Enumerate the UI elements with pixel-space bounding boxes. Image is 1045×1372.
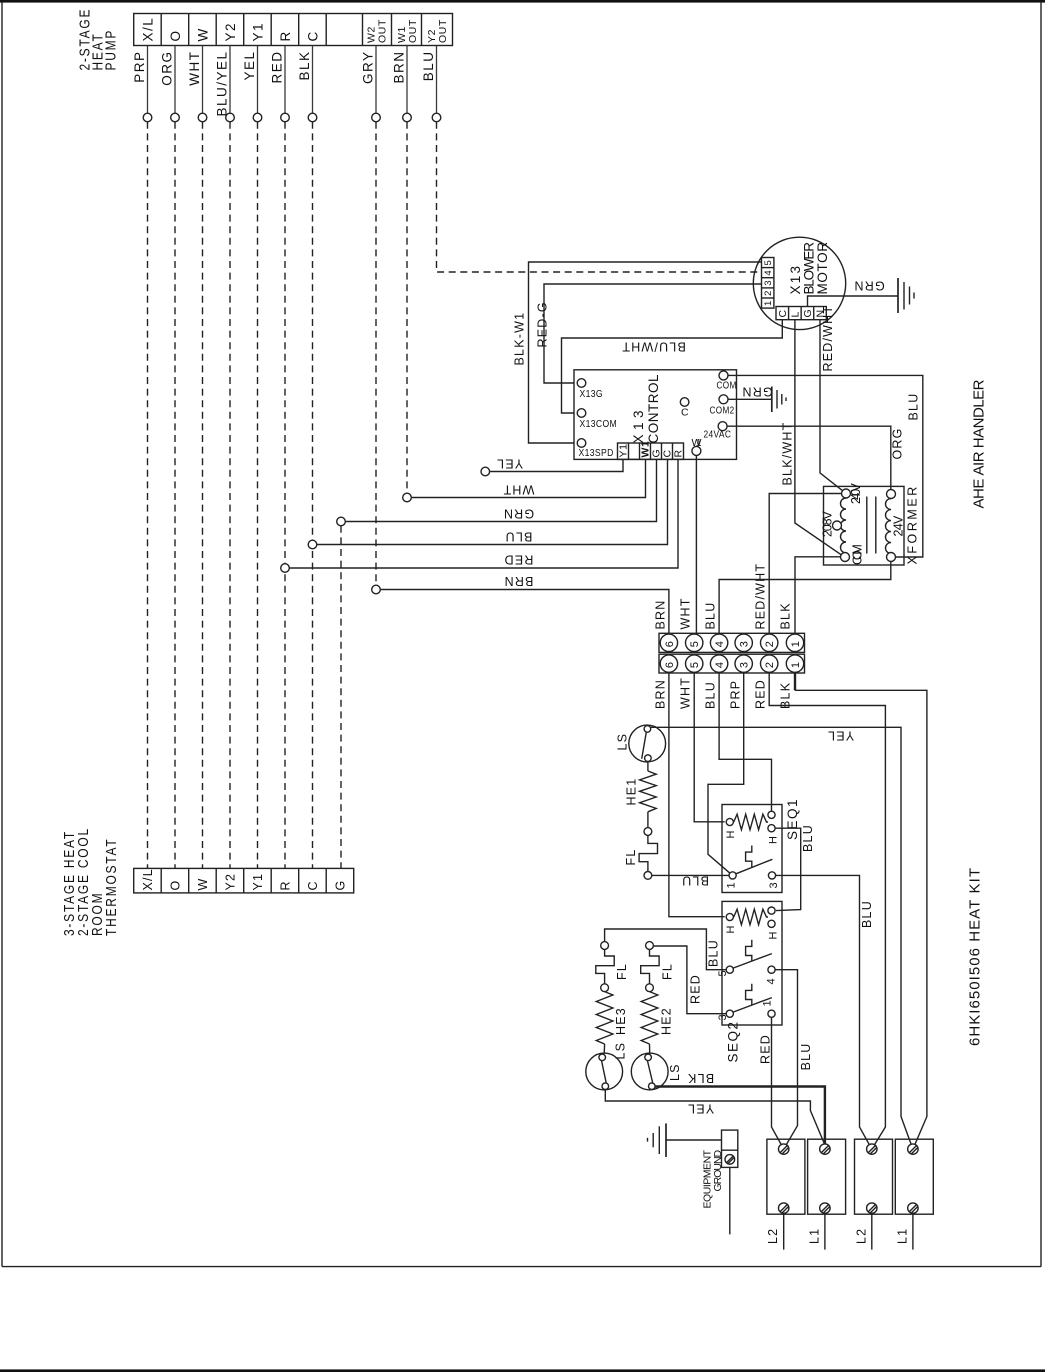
- svg-text:GRN: GRN: [741, 385, 772, 399]
- svg-text:H: H: [725, 830, 737, 839]
- svg-text:5: 5: [689, 661, 701, 668]
- svg-text:YEL: YEL: [496, 457, 523, 471]
- svg-text:BLU/YEL: BLU/YEL: [215, 51, 230, 117]
- svg-text:YEL: YEL: [827, 729, 854, 743]
- SEQ2 heater coil H-H: [734, 909, 768, 925]
- svg-text:BLK: BLK: [297, 51, 312, 81]
- control pin header Y1 / W1 G C R: [618, 441, 685, 460]
- svg-text:24VAC: 24VAC: [704, 429, 732, 441]
- wire BLK-W1 X13SPD to motor pin 5: [529, 262, 762, 443]
- svg-text:FL: FL: [661, 963, 675, 980]
- svg-text:3: 3: [763, 280, 774, 285]
- sequencer SEQ2: [722, 901, 782, 1062]
- svg-text:L: L: [790, 311, 802, 317]
- transformer XFORMER: [821, 482, 920, 565]
- node WHT junction on W1-OUT column: [403, 493, 412, 502]
- svg-text:RED/WHT: RED/WHT: [753, 563, 767, 630]
- wire BLU SEQ2-4 to heat kit L2 block1: [775, 970, 797, 1149]
- svg-text:6HKI650I506 HEAT KIT: 6HKI650I506 HEAT KIT: [967, 868, 984, 1046]
- svg-text:H: H: [768, 931, 780, 940]
- svg-text:THERMOSTAT: THERMOSTAT: [103, 838, 120, 936]
- pin COM: [717, 371, 737, 391]
- ground at motor: [898, 278, 914, 313]
- svg-text:WHT: WHT: [678, 677, 692, 709]
- svg-text:W: W: [196, 27, 211, 41]
- node BLU junction on C column: [308, 540, 317, 549]
- pin X13COM: [577, 409, 617, 431]
- svg-text:BLU: BLU: [703, 602, 717, 630]
- svg-text:G: G: [802, 309, 814, 318]
- svg-text:1: 1: [790, 640, 802, 647]
- pin X13G: [577, 379, 603, 401]
- wire WHT to control W1: [411, 459, 645, 497]
- svg-text:Y1: Y1: [618, 443, 630, 457]
- wire WHT pin5 to SEQ1 H: [694, 673, 725, 822]
- X13 control board U1: [574, 370, 737, 460]
- dashed wire GRY from W2 OUT: [375, 122, 377, 585]
- svg-text:ORG: ORG: [891, 427, 905, 459]
- svg-text:WHT: WHT: [678, 597, 692, 629]
- svg-text:1: 1: [762, 999, 774, 1006]
- svg-text:X13SPD: X13SPD: [579, 447, 614, 459]
- svg-text:BRN: BRN: [653, 679, 667, 709]
- dashed wire BRN from W1 OUT: [406, 122, 408, 493]
- wire BLU pin4 to 24V com: [719, 562, 891, 634]
- heating element HE1: [625, 761, 657, 827]
- svg-text:FL: FL: [615, 963, 629, 980]
- svg-text:WHT: WHT: [502, 483, 534, 497]
- SEQ2 switch M1 pins 5-4: [717, 940, 778, 985]
- svg-text:FL: FL: [624, 849, 638, 866]
- svg-text:Y1: Y1: [251, 22, 266, 42]
- svg-text:BLU/WHT: BLU/WHT: [621, 340, 686, 354]
- svg-text:WHT: WHT: [187, 51, 202, 86]
- svg-text:BLU: BLU: [681, 874, 709, 888]
- svg-text:H: H: [725, 925, 737, 934]
- wire BLK pin1 to heat kit L1: [794, 673, 796, 690]
- svg-text:C: C: [681, 407, 689, 419]
- svg-text:BLU: BLU: [907, 393, 921, 421]
- plug strip lower 6-1: [659, 654, 805, 673]
- svg-text:MOTOR: MOTOR: [815, 241, 830, 295]
- pin 24V com: [887, 553, 896, 562]
- wire GRN motor G to ground: [808, 296, 898, 307]
- svg-text:LS: LS: [616, 733, 630, 751]
- svg-text:1: 1: [726, 881, 738, 888]
- SEQ1 heater coil H-H: [734, 814, 768, 830]
- svg-text:PUMP: PUMP: [102, 29, 119, 71]
- svg-text:X13: X13: [631, 410, 646, 444]
- wire BLU SEQ1 H to SEQ2 H right: [775, 828, 801, 910]
- node GRN junction on G column: [337, 517, 346, 526]
- wire to ground symbol: [666, 1139, 722, 1141]
- svg-text:X/L: X/L: [141, 17, 156, 42]
- heating element HE3: [596, 992, 628, 1054]
- wire ORG 24VAC to transformer 24V: [727, 426, 891, 489]
- svg-text:RED: RED: [503, 553, 533, 567]
- svg-text:OUT: OUT: [437, 19, 449, 43]
- svg-text:R: R: [278, 30, 293, 41]
- svg-text:C: C: [777, 309, 789, 317]
- svg-text:COM: COM: [851, 543, 865, 565]
- wire BLU to control C: [317, 459, 668, 544]
- svg-text:3: 3: [768, 881, 780, 888]
- svg-text:PRP: PRP: [132, 51, 147, 83]
- svg-text:SEQ1: SEQ1: [785, 798, 800, 840]
- ground at COM2: [772, 387, 786, 413]
- pin X13SPD: [577, 439, 614, 460]
- svg-text:1: 1: [790, 661, 802, 668]
- svg-text:HE3: HE3: [614, 1007, 628, 1035]
- svg-text:BLK: BLK: [778, 602, 792, 629]
- svg-text:BLU: BLU: [799, 1043, 813, 1071]
- SEQ2 pins H right: [768, 907, 780, 940]
- svg-text:3: 3: [739, 640, 751, 647]
- wire RED/WHT motor N to transformer 240V: [820, 320, 846, 494]
- terminal block L2 #1: [766, 1139, 805, 1249]
- wire YEL LS-HE3 to heat kit L1 block1: [605, 1090, 825, 1145]
- svg-text:BLU: BLU: [860, 900, 874, 928]
- svg-text:RED: RED: [270, 51, 285, 84]
- pin COM 240: [841, 553, 850, 562]
- svg-text:YEL: YEL: [687, 1102, 714, 1116]
- terminal block L1 #2: [895, 1139, 933, 1249]
- fuse link FL (HE1): [624, 828, 658, 880]
- svg-text:BLK-W1: BLK-W1: [513, 312, 527, 366]
- wire BRN pin6 to SEQ2 H: [669, 673, 725, 917]
- labels above plug: BRN WHT BLU RED/WHT BLK: [653, 563, 792, 630]
- wire BLU SEQ1-3 to heat kit L2: [776, 875, 872, 1149]
- node BRN junction on W2-OUT column: [372, 585, 381, 594]
- svg-text:3: 3: [739, 661, 751, 668]
- svg-text:5: 5: [763, 260, 774, 265]
- svg-text:L1: L1: [895, 1228, 909, 1244]
- wire RED-G X13G to motor pin 3: [544, 284, 762, 383]
- svg-text:O: O: [169, 880, 183, 891]
- dashed wire G column to thermostat G: [340, 526, 342, 869]
- svg-text:5: 5: [717, 969, 729, 976]
- terminal block L2 #2: [854, 1139, 892, 1249]
- svg-text:G: G: [334, 880, 348, 891]
- pin 24V hot: [887, 490, 896, 499]
- svg-text:BLU: BLU: [801, 824, 815, 852]
- wire GRN COM2 to ground: [728, 398, 772, 400]
- svg-text:BLU: BLU: [703, 681, 717, 709]
- svg-text:RED/WHT: RED/WHT: [821, 305, 835, 372]
- svg-text:X13COM: X13COM: [580, 418, 618, 430]
- wire BLU pin4 to SEQ1 H right: [719, 673, 771, 811]
- svg-text:W: W: [196, 878, 210, 891]
- svg-text:H: H: [768, 835, 780, 844]
- motor X13 BLOWER MOTOR: [753, 237, 845, 329]
- svg-text:4: 4: [714, 640, 726, 647]
- svg-text:BRN: BRN: [653, 600, 667, 630]
- wire BLU COM to transformer 24V com: [728, 375, 923, 557]
- svg-text:Y2: Y2: [224, 873, 238, 891]
- wire GRN to control G: [345, 459, 656, 521]
- svg-text:BRN: BRN: [392, 51, 407, 84]
- plug strip upper 6-1: [659, 633, 805, 652]
- svg-text:BRN: BRN: [503, 574, 533, 588]
- svg-text:YEL: YEL: [242, 51, 257, 81]
- svg-text:4: 4: [763, 270, 774, 275]
- SEQ2 pin H left: [725, 913, 737, 933]
- node YEL endpoint: [481, 467, 490, 476]
- svg-text:R: R: [279, 880, 293, 890]
- svg-text:4: 4: [766, 977, 778, 984]
- svg-text:2: 2: [764, 661, 776, 668]
- svg-text:ORG: ORG: [160, 51, 175, 86]
- svg-text:XFORMER: XFORMER: [906, 486, 920, 565]
- motor pin strip 1-5: [762, 258, 774, 309]
- svg-text:AHE AIR HANDLER: AHE AIR HANDLER: [971, 379, 988, 508]
- pin 24VAC: [704, 422, 732, 441]
- pin W1: [692, 437, 703, 455]
- node RED junction on R column: [281, 564, 290, 573]
- svg-text:COM: COM: [717, 378, 737, 390]
- svg-text:O: O: [168, 29, 183, 41]
- svg-text:HE1: HE1: [625, 778, 639, 806]
- svg-text:OUT: OUT: [407, 19, 419, 43]
- wire RED/WHT pin2 to 240V: [769, 494, 841, 634]
- limit switch LS (HE2): [631, 1053, 682, 1090]
- svg-text:5: 5: [689, 640, 701, 647]
- wire PRP pin3 to SEQ1 M1: [708, 673, 744, 873]
- wire RED to control R: [289, 459, 678, 568]
- SEQ2 switch M2 pins 3-1: [717, 984, 775, 1021]
- SEQ1 switch M1: [726, 846, 781, 889]
- heating element HE2: [641, 992, 673, 1054]
- svg-text:CONTROL: CONTROL: [646, 374, 661, 444]
- wire BRN to plug pin 6: [380, 590, 669, 634]
- dashed wire BLU from Y2 OUT to motor pin 4: [437, 122, 762, 272]
- ground (equipment): [648, 1123, 667, 1157]
- wire RED SEQ2-3 to HE2: [654, 946, 726, 1014]
- svg-text:3: 3: [717, 1013, 729, 1020]
- svg-text:Y1: Y1: [251, 873, 265, 891]
- pin 240V: [842, 489, 851, 498]
- dashed thermostat wires X/L O W Y2 Y1 R C: [148, 122, 313, 869]
- svg-text:4: 4: [714, 661, 726, 668]
- svg-text:6: 6: [664, 640, 676, 647]
- terminal block L1 #1: [807, 1139, 845, 1249]
- label 2-STAGE HEAT PUMP: [76, 8, 119, 71]
- svg-text:LS: LS: [614, 1042, 628, 1060]
- svg-text:R: R: [673, 449, 685, 457]
- svg-text:C: C: [306, 880, 320, 890]
- svg-text:C: C: [306, 30, 321, 41]
- equipment ground lug: [702, 1130, 738, 1234]
- wire BLU/WHT X13COM to motor C: [562, 320, 783, 413]
- fuse link FL (HE2): [641, 942, 675, 992]
- svg-text:SEQ2: SEQ2: [726, 1020, 741, 1062]
- svg-text:2: 2: [764, 640, 776, 647]
- svg-text:RED: RED: [689, 974, 703, 1004]
- label 3-STAGE HEAT 2-STAGE COOL ROOM THERMOSTAT: [61, 827, 120, 936]
- fuse link FL (HE3): [596, 942, 629, 992]
- svg-text:BLK: BLK: [687, 1071, 714, 1085]
- pin C (unused): [680, 398, 689, 419]
- wire WHT W1 to plug pin 5: [695, 455, 697, 633]
- svg-text:OUT: OUT: [377, 19, 389, 43]
- svg-text:2: 2: [763, 291, 774, 296]
- svg-text:RED: RED: [759, 1034, 773, 1064]
- svg-text:L2: L2: [766, 1228, 780, 1244]
- svg-text:LS: LS: [668, 1063, 682, 1081]
- svg-text:BLU: BLU: [421, 51, 436, 82]
- limit switch LS (HE1): [616, 725, 666, 762]
- svg-text:W1: W1: [692, 437, 703, 449]
- svg-text:RED: RED: [753, 679, 767, 709]
- pin 208V tap: [833, 521, 842, 530]
- svg-text:L2: L2: [854, 1228, 868, 1244]
- svg-text:BLU: BLU: [504, 530, 532, 544]
- labels below plug: BRN WHT BLU PRP RED BLK: [653, 677, 792, 709]
- wire BLK/WHT motor L to transformer COM: [795, 320, 844, 557]
- svg-text:Y2: Y2: [223, 22, 238, 42]
- svg-text:X13G: X13G: [580, 388, 603, 400]
- wire YEL to control Y1: [490, 459, 623, 471]
- svg-text:L1: L1: [807, 1228, 821, 1244]
- limit switch LS (HE3): [586, 1042, 628, 1090]
- svg-text:GRN: GRN: [503, 507, 534, 521]
- svg-text:GRN: GRN: [853, 279, 884, 293]
- heat pump wire color labels: [132, 51, 436, 117]
- wire BLK LS-HE2 to heat kit L1 block1: [655, 1087, 825, 1146]
- wire BLU SEQ2-5 to HE3: [605, 929, 727, 970]
- svg-text:6: 6: [664, 661, 676, 668]
- svg-text:GROUND: GROUND: [712, 1149, 724, 1191]
- wire RED SEQ2-1 to heat kit L2 block1: [772, 1017, 784, 1149]
- SEQ1 pins H right: [768, 811, 780, 844]
- motor terminal strip C L G N: [776, 307, 827, 320]
- wire BLK pin1 to COM 240: [795, 557, 841, 634]
- terminal strip ROOM THERMOSTAT: [134, 868, 354, 893]
- wire RED pin2 to heat kit L2: [769, 673, 885, 1149]
- svg-text:X/L: X/L: [141, 868, 155, 890]
- svg-text:1: 1: [763, 301, 774, 306]
- svg-text:BLU: BLU: [707, 939, 721, 967]
- heat pump terminal stubs and junction circles: [143, 46, 441, 122]
- wire YEL LS to heat kit L1 block2: [651, 727, 913, 1149]
- terminal strip 2-STAGE HEAT PUMP: [134, 14, 453, 46]
- svg-text:HE2: HE2: [660, 1007, 674, 1035]
- svg-text:PRP: PRP: [728, 680, 742, 709]
- sequencer SEQ1: [722, 798, 800, 893]
- pin COM2: [710, 395, 735, 416]
- wire BLU FL to SEQ1 pin1: [652, 874, 729, 876]
- labels YEL WHT GRN BLU RED BRN (inverted): [496, 457, 535, 589]
- svg-text:RED-G: RED-G: [536, 301, 550, 347]
- svg-text:COM2: COM2: [710, 403, 735, 415]
- svg-text:GRY: GRY: [361, 51, 376, 85]
- svg-text:BLK/WHT: BLK/WHT: [781, 422, 795, 486]
- SEQ1 pin H left: [725, 818, 737, 838]
- svg-text:24V: 24V: [892, 515, 906, 537]
